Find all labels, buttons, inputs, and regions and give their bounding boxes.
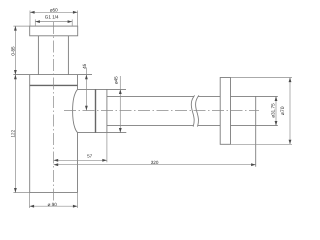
body bottom xyxy=(30,192,78,194)
0-85 dim xyxy=(14,26,16,75)
57 arrows xyxy=(54,159,59,162)
vertical centerline xyxy=(53,22,55,205)
boss top line + dia45 tick xyxy=(78,88,127,90)
body seam thick xyxy=(30,84,78,86)
dia70 arrows xyxy=(289,78,292,83)
break curve left xyxy=(191,95,194,126)
dia50 top arrows xyxy=(30,11,35,14)
122 arrows xyxy=(14,75,17,80)
body top line with 0-85 and 45 extension xyxy=(13,74,92,76)
dia50 bottom dim xyxy=(30,205,78,207)
dimension lines xyxy=(13,11,292,209)
dia45 dim xyxy=(119,76,121,133)
svg-text:⌀45: ⌀45 xyxy=(113,76,118,84)
pipe bottom wall segment 3 + dia31.75 tick xyxy=(231,125,278,127)
dia31.75 arrows xyxy=(275,96,278,101)
body right wall lower xyxy=(77,133,79,193)
outlet nut right face xyxy=(106,89,108,132)
wall flange xyxy=(220,78,230,145)
dia70 dim xyxy=(289,78,291,145)
body right wall upper xyxy=(77,75,79,90)
top nut flange xyxy=(30,26,78,36)
G1 1/4 dim xyxy=(35,21,72,23)
svg-text:45: 45 xyxy=(82,63,87,69)
svg-text:⌀70: ⌀70 xyxy=(280,106,286,115)
320 arrows xyxy=(54,163,59,166)
pipe bottom wall segment 2 xyxy=(198,125,221,127)
centerlines xyxy=(54,22,260,205)
outlet nut left face xyxy=(95,89,97,132)
inlet tube wall left xyxy=(37,36,39,75)
45 arrows xyxy=(85,75,88,80)
body left wall xyxy=(29,75,31,193)
320 dim xyxy=(54,164,256,166)
dia50 top dim xyxy=(30,11,78,13)
svg-text:122: 122 xyxy=(10,129,15,137)
svg-text:⌀50: ⌀50 xyxy=(50,7,58,12)
pipe bottom wall segment 1 xyxy=(107,125,193,127)
pipe top wall segment 1 xyxy=(107,95,194,97)
45 dim xyxy=(85,68,87,111)
dia50 bottom arrows xyxy=(30,205,35,208)
dia31.75 dim xyxy=(275,96,277,125)
dia45 arrows xyxy=(119,89,122,94)
outlet intersection curve xyxy=(73,89,78,132)
boss bottom line + dia45 tick xyxy=(77,132,126,134)
arrowheads xyxy=(14,11,291,208)
0-85 arrows xyxy=(14,26,17,31)
svg-text:G1 1/4: G1 1/4 xyxy=(45,15,59,20)
svg-text:57: 57 xyxy=(87,153,93,158)
pipe top wall segment 3 + dia31.75 tick xyxy=(231,95,278,97)
57 dim xyxy=(54,159,107,161)
G1 arrows xyxy=(35,20,40,23)
122 dim xyxy=(14,75,16,193)
svg-text:⌀ 50: ⌀ 50 xyxy=(48,202,58,207)
pipe end edge + 320 extension xyxy=(255,96,257,166)
svg-text:0-85: 0-85 xyxy=(11,46,16,56)
horizontal centerline xyxy=(64,110,259,112)
pipe top wall segment 2 xyxy=(198,95,220,97)
svg-text:320: 320 xyxy=(151,160,159,165)
inlet tube wall right xyxy=(67,36,69,75)
break curve right xyxy=(196,95,199,126)
svg-text:⌀31.75: ⌀31.75 xyxy=(270,103,275,118)
